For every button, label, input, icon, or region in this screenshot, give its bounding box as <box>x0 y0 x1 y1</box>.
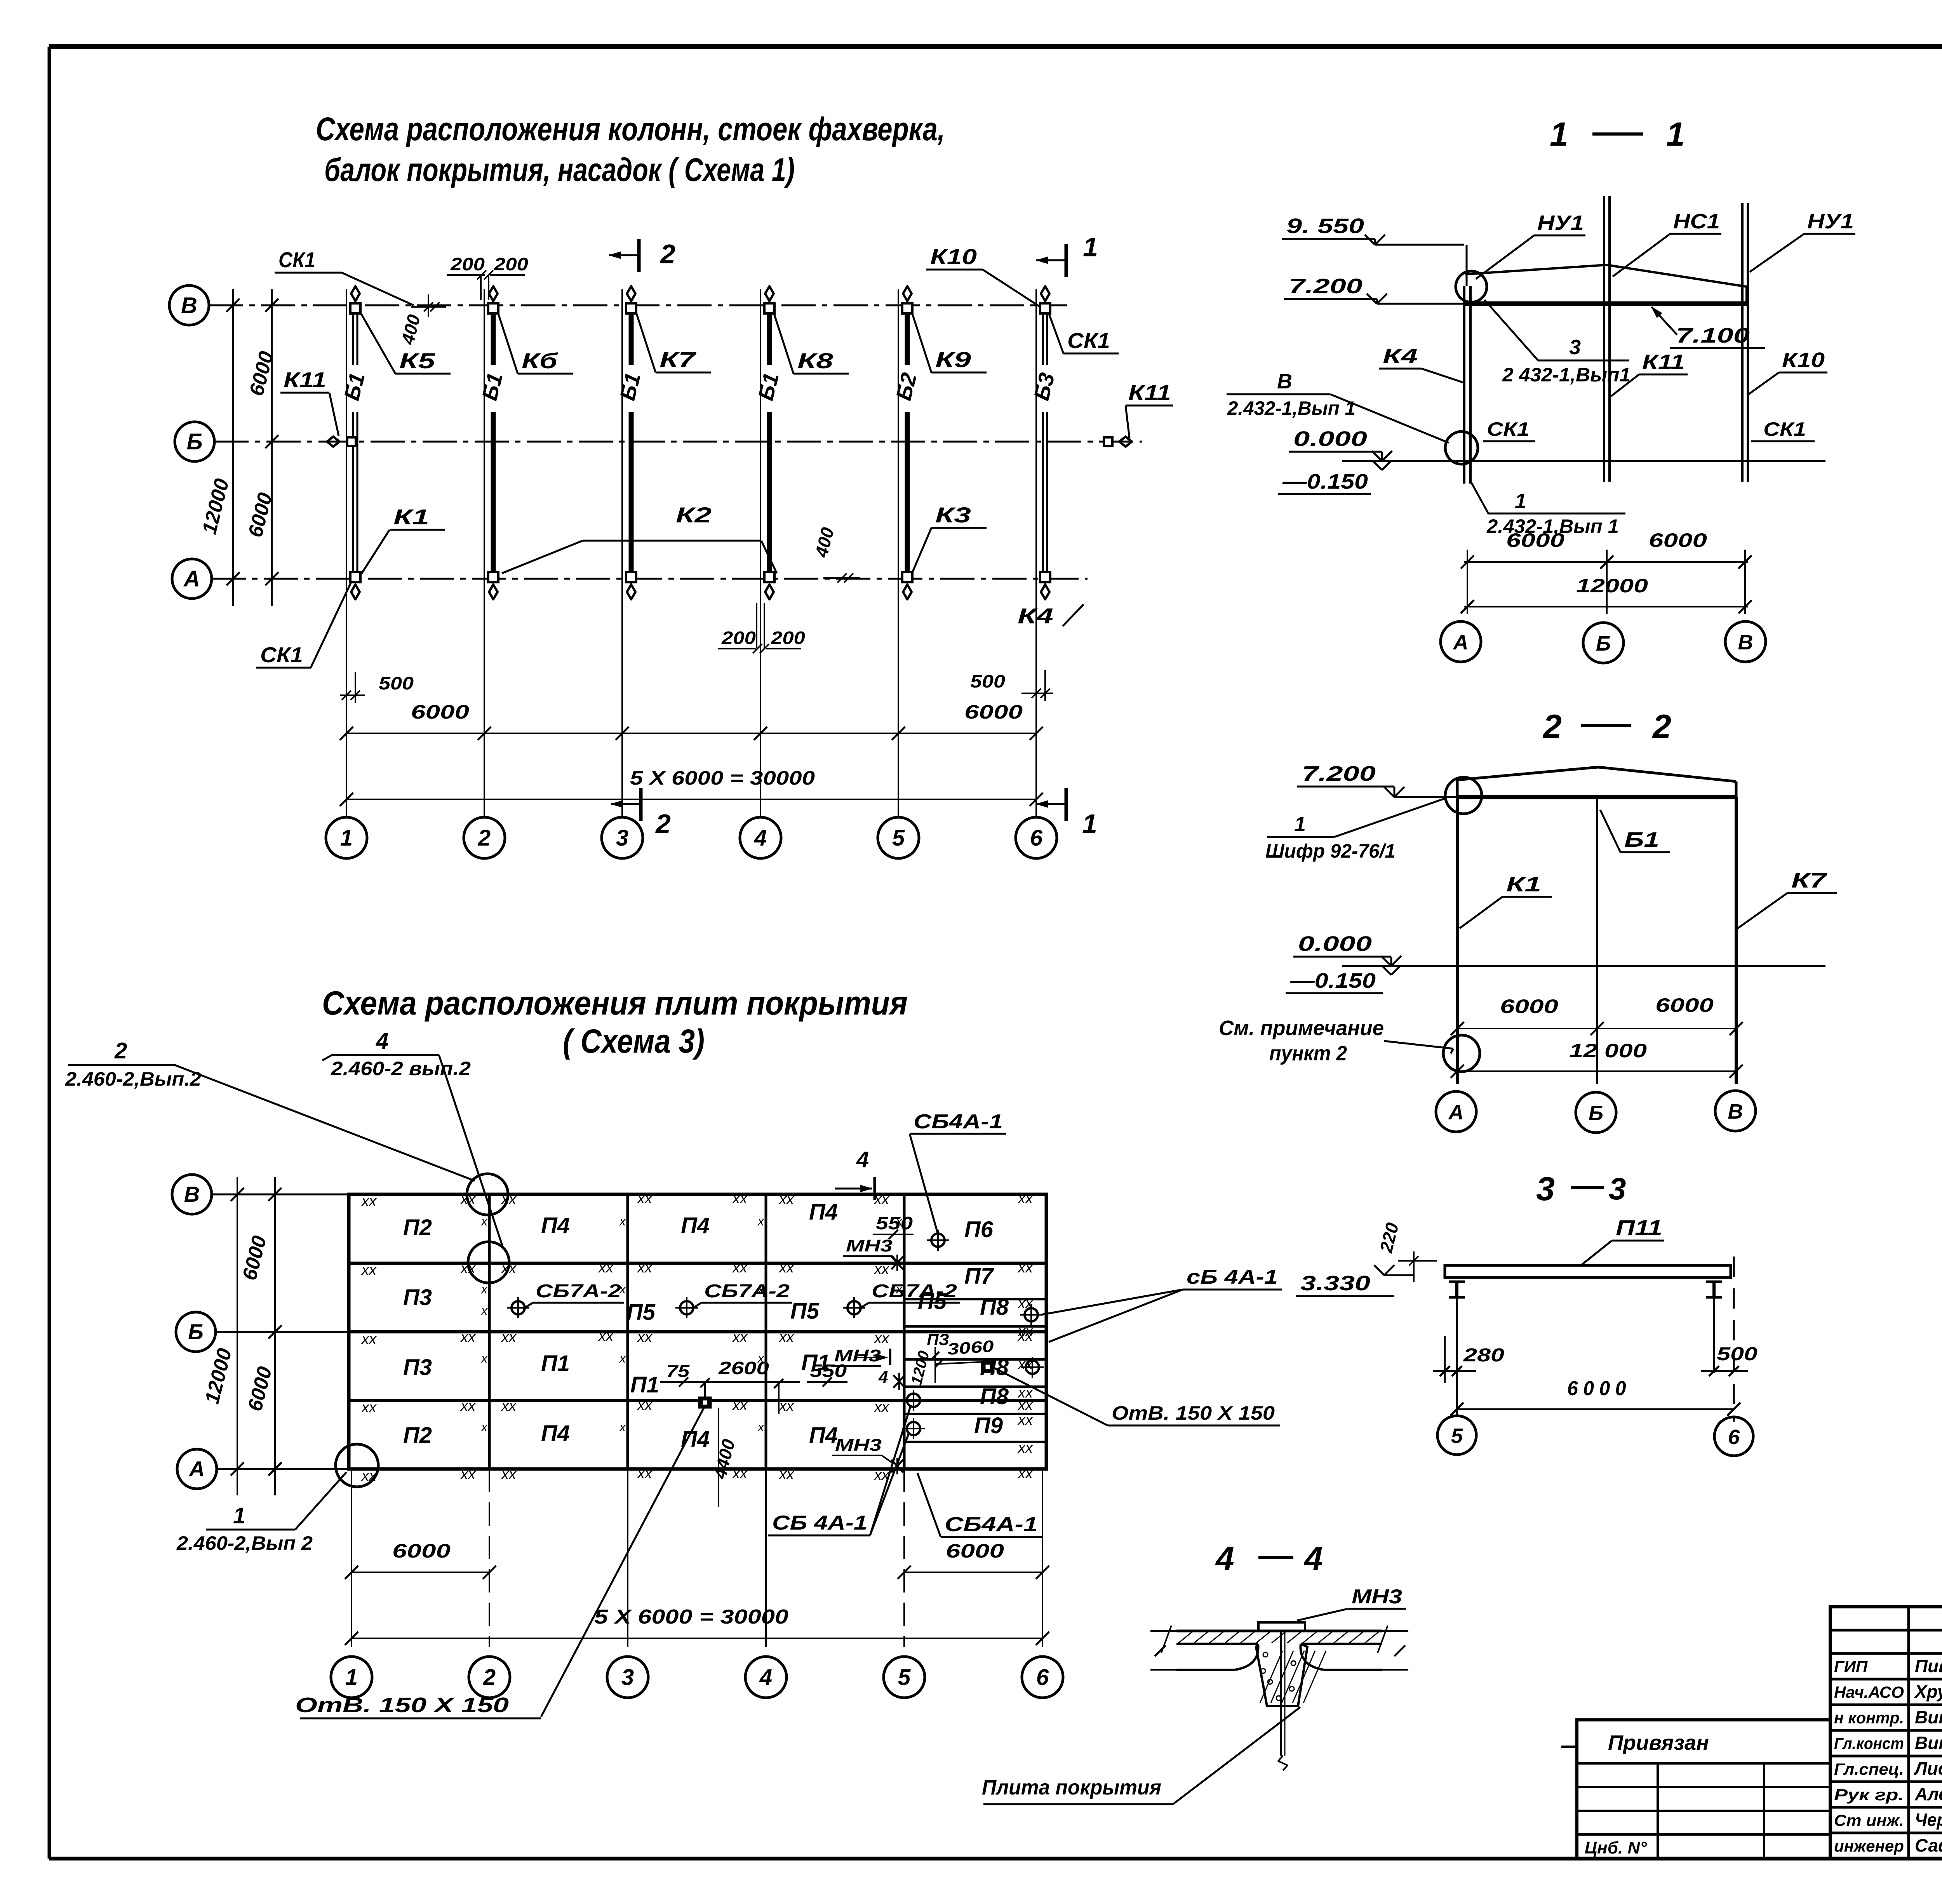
beam Б1 on axis 4 <box>753 307 783 578</box>
svg-text:xx: xx <box>732 1190 748 1207</box>
svg-text:К1: К1 <box>1506 873 1541 896</box>
section 2-2 column К7 <box>1735 797 1738 1084</box>
label МН3 top <box>843 1236 898 1263</box>
svg-text:x: x <box>757 1214 764 1228</box>
section 1-1 column НУ1 at axis А <box>1464 245 1470 484</box>
svg-text:Сафонова: Сафонова <box>1915 1835 1942 1855</box>
svg-text:1: 1 <box>345 1665 358 1690</box>
slab label П5 <box>918 1289 947 1314</box>
label СК1 section right <box>1751 418 1815 441</box>
К11 column left on axis Б <box>327 437 356 447</box>
svg-text:—0.150: —0.150 <box>1290 969 1376 992</box>
axis 6 dash line section 3-3 <box>1733 1257 1735 1422</box>
svg-text:3.330: 3.330 <box>1300 1272 1370 1295</box>
scheme3 axis Б <box>176 1312 349 1352</box>
svg-text:4: 4 <box>878 1368 888 1387</box>
opening Отв 150x150 in П1 <box>699 1398 711 1408</box>
svg-text:П9: П9 <box>974 1413 1003 1438</box>
level 0.000 <box>1289 427 1392 461</box>
svg-text:Привязан: Привязан <box>1608 1731 1709 1754</box>
anchors in right bay lower <box>902 1390 925 1411</box>
label СК1 top right <box>1049 313 1119 353</box>
label Отв 150х150 right <box>994 1368 1280 1425</box>
svg-text:Винклер: Винклер <box>1915 1733 1942 1753</box>
svg-text:П4: П4 <box>809 1199 838 1225</box>
svg-text:К9: К9 <box>935 347 971 372</box>
label К5 <box>361 314 451 374</box>
slab label П8 <box>980 1384 1009 1409</box>
svg-text:xx: xx <box>501 1260 517 1277</box>
svg-text:3: 3 <box>1569 336 1581 359</box>
svg-text:6: 6 <box>1036 1665 1049 1690</box>
slab label П1 <box>630 1372 659 1398</box>
svg-text:xx: xx <box>361 1468 377 1484</box>
svg-text:xx: xx <box>460 1329 476 1345</box>
svg-text:7.100: 7.100 <box>1676 324 1750 347</box>
svg-text:xx: xx <box>637 1465 653 1482</box>
svg-text:П7: П7 <box>964 1264 994 1289</box>
svg-text:xx: xx <box>1017 1295 1034 1312</box>
label К2 with bracket <box>502 503 777 573</box>
slab label П7 <box>964 1264 994 1289</box>
svg-text:x: x <box>757 1351 764 1365</box>
svg-text:x: x <box>480 1304 488 1317</box>
svg-text:СБ4А-1: СБ4А-1 <box>914 1110 1003 1133</box>
dim row 6000 <box>340 701 1043 740</box>
axis circle 1 <box>326 817 367 858</box>
svg-text:xx: xx <box>637 1329 653 1345</box>
svg-text:МН3: МН3 <box>835 1436 882 1455</box>
label сБ 4А-1 right <box>1041 1266 1282 1342</box>
svg-text:К11: К11 <box>284 367 326 392</box>
svg-text:СБ7А-2: СБ7А-2 <box>536 1281 621 1302</box>
svg-text:Б: Б <box>1589 1102 1603 1125</box>
label НС1 <box>1613 210 1721 277</box>
scheme3 bottom dim 6000 left <box>345 1540 496 1579</box>
opening in П8 band <box>982 1362 994 1372</box>
axis circle 6 <box>1016 817 1057 858</box>
svg-text:1: 1 <box>1083 232 1098 262</box>
label К10 <box>926 244 1040 307</box>
К11 column right on axis Б <box>1104 437 1132 447</box>
beam Б2 on axis 5 <box>891 307 921 578</box>
svg-text:x: x <box>619 1282 626 1296</box>
svg-text:x: x <box>480 1351 488 1365</box>
label 4 / 2.460-2 вып.2 <box>322 1029 503 1248</box>
slab label П5 <box>626 1300 656 1325</box>
svg-text:В: В <box>1738 631 1753 654</box>
ground line -0.150 <box>1278 461 1825 494</box>
svg-text:В: В <box>1277 370 1292 393</box>
dim 550 middle <box>807 1361 847 1387</box>
axis 1 grid line <box>346 289 347 816</box>
svg-text:Хрупало: Хрупало <box>1914 1681 1942 1702</box>
svg-text:xx: xx <box>501 1191 517 1208</box>
section mark 1 bottom <box>1036 788 1097 839</box>
svg-text:xx: xx <box>501 1329 517 1345</box>
dim 550 top <box>873 1213 914 1239</box>
column square axis 6 / А <box>1040 572 1050 582</box>
svg-text:ОтВ. 150 X 150: ОтВ. 150 X 150 <box>1112 1402 1275 1424</box>
slab label П5 <box>790 1298 820 1324</box>
label 3 / 2 432-1,Вып1 <box>1484 300 1631 386</box>
slab label П8 <box>980 1295 1009 1320</box>
fachwerk diamond bottom axis 2 <box>489 579 498 599</box>
svg-text:xx: xx <box>778 1260 795 1276</box>
svg-text:К7: К7 <box>1791 869 1828 892</box>
svg-text:3060: 3060 <box>947 1337 994 1358</box>
label НУ1 right <box>1750 210 1855 272</box>
scheme3 axis circle 4 <box>745 1657 787 1698</box>
node circle callout 2 <box>467 1174 508 1215</box>
scheme3 axis circle 6 <box>1022 1657 1063 1698</box>
dim 75 / 2600 <box>660 1358 800 1414</box>
section 3-3 circle 5 <box>1437 1409 1476 1455</box>
svg-text:П1: П1 <box>630 1372 659 1398</box>
svg-text:—0.150: —0.150 <box>1282 470 1368 493</box>
svg-text:П4: П4 <box>681 1213 710 1238</box>
level 7.100 with arrow <box>1651 307 1765 348</box>
svg-text:xx: xx <box>1017 1190 1034 1207</box>
svg-text:Цнб. N°: Цнб. N° <box>1585 1838 1647 1857</box>
column square axis 4 / А <box>764 572 774 582</box>
svg-text:Алехова: Алехова <box>1914 1784 1942 1804</box>
section 1-1 column НС1 at axis Б <box>1604 196 1610 482</box>
svg-text:x: x <box>757 1420 764 1434</box>
slab П11 <box>1445 1265 1731 1277</box>
column square axis 1 / В <box>350 303 360 313</box>
fachwerk diamond bottom axis 5 <box>903 579 912 599</box>
label К4 <box>1018 604 1084 628</box>
svg-text:СК1: СК1 <box>1487 418 1530 440</box>
column square axis 4 / В <box>764 303 774 313</box>
svg-text:xx: xx <box>874 1191 890 1208</box>
svg-text:xx: xx <box>460 1466 476 1483</box>
anchor bolt МН3 <box>1278 1631 1288 1770</box>
rib of slab <box>1256 1644 1326 1706</box>
svg-text:x: x <box>895 1282 903 1296</box>
slab label П4 <box>809 1199 838 1225</box>
svg-text:К1: К1 <box>393 505 429 529</box>
label СБ7А-2 #3 <box>859 1281 960 1309</box>
node circle callout 4 <box>468 1242 509 1283</box>
node circle callout 1 <box>336 1444 378 1487</box>
svg-text:xx: xx <box>874 1330 890 1347</box>
svg-text:xx: xx <box>1017 1385 1034 1401</box>
title block: signature table <box>1830 1607 1942 1859</box>
svg-text:СБ 4А-1: СБ 4А-1 <box>772 1512 867 1534</box>
svg-text:xx: xx <box>361 1331 377 1347</box>
scheme3 axis extensions below <box>352 1469 1042 1647</box>
svg-text:xx: xx <box>598 1328 614 1344</box>
svg-text:xx: xx <box>1017 1260 1034 1276</box>
svg-text:500: 500 <box>1717 1344 1758 1364</box>
svg-text:xx: xx <box>501 1466 517 1483</box>
dim 400 bottom (axis 4) <box>811 525 860 583</box>
fachwerk diamond top axis 2 <box>489 286 498 307</box>
МН3 washer plate <box>1258 1622 1305 1631</box>
node circle bottom (В/1) <box>1445 432 1478 464</box>
svg-text:СК1: СК1 <box>1763 418 1806 440</box>
svg-text:См. примечание: См. примечание <box>1219 1016 1384 1040</box>
svg-text:500: 500 <box>379 673 414 693</box>
svg-text:6000: 6000 <box>1649 529 1707 551</box>
svg-text:4: 4 <box>759 1665 772 1690</box>
svg-text:Шифр 92-76/1: Шифр 92-76/1 <box>1265 840 1396 862</box>
fachwerk diamond top axis 3 <box>627 286 635 307</box>
svg-text:Черкасова: Черкасова <box>1915 1810 1942 1830</box>
slab break lines and arrows <box>1150 1626 1408 1670</box>
svg-text:2: 2 <box>114 1038 127 1063</box>
slab label П4 <box>681 1427 710 1452</box>
svg-text:1: 1 <box>340 825 353 851</box>
section 1-1 dims 6000+6000 <box>1461 529 1752 614</box>
svg-text:2.460-2,Вып 2: 2.460-2,Вып 2 <box>176 1532 313 1554</box>
svg-text:x: x <box>757 1282 764 1296</box>
svg-text:2: 2 <box>483 1665 496 1690</box>
svg-text:МН3: МН3 <box>1352 1586 1402 1608</box>
left frame stubs <box>1561 1746 1577 1748</box>
svg-text:К8: К8 <box>797 348 834 373</box>
label 1 / Шифр 92-76/1 <box>1265 798 1446 862</box>
svg-text:xx: xx <box>1017 1356 1034 1373</box>
dim 220 rotated <box>1376 1220 1437 1282</box>
section 2-2 beam Б1 edge <box>1596 797 1598 1084</box>
anchor СБ4А-1 П8 right mid <box>1021 1357 1044 1378</box>
svg-text:xx: xx <box>460 1191 476 1208</box>
svg-text:К5: К5 <box>399 348 435 373</box>
label СБ 4А-1 bottom #1 <box>768 1405 911 1535</box>
scheme3 axis circle 2 <box>469 1657 510 1698</box>
svg-text:6000: 6000 <box>392 1540 451 1562</box>
svg-text:500: 500 <box>970 671 1005 691</box>
slab label П4 <box>681 1213 710 1238</box>
label К7 section 2-2 <box>1738 869 1837 928</box>
slab underside <box>1176 1644 1382 1670</box>
svg-text:3: 3 <box>616 825 628 851</box>
axis А <box>172 559 1088 599</box>
svg-text:0.000: 0.000 <box>1293 427 1367 451</box>
slab cross-section with hatching <box>1176 1631 1382 1644</box>
section 1-1 title <box>1550 116 1685 153</box>
svg-text:Нач.АСО: Нач.АСО <box>1834 1683 1904 1701</box>
svg-text:xx: xx <box>637 1190 653 1207</box>
section 2-2 axis circles А Б В <box>1436 1091 1476 1132</box>
svg-text:СБ7А-2: СБ7А-2 <box>704 1281 790 1302</box>
dim 200/200 top (axis 2) <box>447 254 528 300</box>
title Схема 3 <box>322 985 908 1060</box>
svg-text:Пивторак: Пивторак <box>1915 1656 1942 1676</box>
svg-text:xx: xx <box>778 1191 795 1208</box>
column square axis 3 / В <box>626 303 636 313</box>
axis Б <box>175 422 1142 461</box>
svg-text:xx: xx <box>778 1329 795 1345</box>
section mark 4 top <box>835 1147 875 1200</box>
slab label П2 <box>403 1215 432 1240</box>
asterisk МН3 top <box>891 1255 903 1271</box>
svg-text:2 432-1,Вып1: 2 432-1,Вып1 <box>1502 364 1631 386</box>
node circle top (1) <box>1445 777 1482 814</box>
slab label П4 <box>541 1421 570 1446</box>
svg-text:xx: xx <box>732 1260 748 1276</box>
label 1 / 2.432-1,Вып 1 <box>1471 482 1625 537</box>
svg-text:сБ 4А-1: сБ 4А-1 <box>1187 1266 1278 1288</box>
label СБ7А-2 #1 <box>523 1281 624 1309</box>
beam Б1 on axis 1 <box>339 307 369 578</box>
svg-text:xx: xx <box>874 1399 890 1415</box>
svg-text:К11: К11 <box>1642 350 1685 374</box>
level 7.200 <box>1284 275 1463 304</box>
svg-text:П6: П6 <box>964 1217 994 1242</box>
section mark 2 bottom <box>611 788 671 839</box>
section 1-1 roof beam <box>1464 265 1748 304</box>
svg-text:5 X 6000 = 30000: 5 X 6000 = 30000 <box>594 1606 788 1628</box>
svg-text:Схема расположения плит пок: Схема расположения плит покрытия <box>322 985 908 1022</box>
svg-text:3: 3 <box>621 1665 634 1690</box>
label СБ4А-1 top <box>910 1110 1006 1234</box>
svg-text:П4: П4 <box>541 1213 570 1238</box>
svg-text:Гл.конст: Гл.конст <box>1834 1734 1904 1753</box>
svg-text:А: А <box>188 1457 205 1481</box>
label СК1 bottom left <box>256 581 352 668</box>
dim row 5x6000=30000 <box>340 767 1043 806</box>
svg-text:550: 550 <box>810 1361 847 1381</box>
slab label П1 <box>541 1351 570 1376</box>
column square axis 5 / В <box>902 303 912 313</box>
svg-text:К3: К3 <box>935 503 971 527</box>
slab label П6 <box>964 1217 994 1242</box>
slab label П3 <box>403 1285 432 1310</box>
label К1 <box>361 505 445 574</box>
dim 500 section 3-3 <box>1701 1344 1758 1376</box>
axis 5 grid line <box>898 289 899 816</box>
svg-text:1: 1 <box>1082 809 1097 839</box>
svg-text:3: 3 <box>1609 1171 1626 1206</box>
column square axis 2 / В <box>488 303 498 313</box>
asterisk МН3 middle <box>893 1373 905 1390</box>
section mark 1 top <box>1036 232 1098 277</box>
level 7.200 section 2-2 <box>1297 762 1457 797</box>
svg-text:x: x <box>619 1420 626 1434</box>
svg-text:2: 2 <box>478 825 491 851</box>
section 2-2 column К1 <box>1456 797 1459 1084</box>
svg-text:7.200: 7.200 <box>1289 275 1363 298</box>
fachwerk diamond top axis 6 <box>1041 286 1049 307</box>
svg-text:xx: xx <box>637 1260 653 1276</box>
fachwerk diamond bottom axis 6 <box>1041 579 1049 599</box>
I-beam support right <box>1706 1282 1722 1373</box>
signature table rows <box>1834 1656 1942 1855</box>
slab label П1 <box>801 1350 830 1375</box>
svg-text:200: 200 <box>494 254 529 274</box>
svg-text:СБ7А-2: СБ7А-2 <box>872 1281 957 1302</box>
svg-text:Ст инж.: Ст инж. <box>1834 1811 1904 1829</box>
label К4 section <box>1379 345 1463 383</box>
slab label П2 <box>403 1423 432 1448</box>
svg-text:xx: xx <box>361 1262 377 1278</box>
dim 6000 section 3-3 <box>1450 1377 1740 1416</box>
svg-text:4: 4 <box>1215 1540 1234 1577</box>
svg-text:В: В <box>184 1182 200 1206</box>
svg-text:xx: xx <box>732 1329 748 1345</box>
svg-text:Кб: Кб <box>522 348 558 373</box>
svg-text:Плита покрытия: Плита покрытия <box>982 1776 1161 1799</box>
svg-text:x: x <box>480 1282 488 1296</box>
axis circle 4 <box>740 817 781 858</box>
svg-text:7.200: 7.200 <box>1302 762 1376 785</box>
label СБ4А-1 bottom #2 <box>917 1473 1043 1537</box>
label К10 section <box>1749 348 1827 394</box>
svg-text:5: 5 <box>892 825 905 851</box>
svg-text:xx: xx <box>361 1193 377 1210</box>
scheme3 slab field outline <box>349 1194 1046 1469</box>
svg-text:В: В <box>181 293 197 318</box>
fachwerk diamond top axis 5 <box>903 286 912 307</box>
axis 3 grid line <box>621 289 623 816</box>
section 1-1 axis circles А Б В <box>1441 621 1481 662</box>
section 3-3 title <box>1536 1170 1626 1208</box>
label К6 <box>498 314 573 374</box>
svg-text:xx: xx <box>460 1260 476 1277</box>
scheme3 axis А <box>177 1449 349 1489</box>
axis В <box>169 285 1067 325</box>
anchor СБ7А-2 #1 <box>507 1297 529 1318</box>
svg-text:x: x <box>480 1420 488 1434</box>
label См. примечание пункт 2 <box>1219 1016 1453 1065</box>
label К11 section <box>1611 350 1688 396</box>
label МН3 bottom <box>832 1436 893 1464</box>
dim 400 top <box>397 294 446 347</box>
svg-text:xx: xx <box>778 1466 795 1483</box>
column square axis 5 / А <box>902 572 912 582</box>
svg-text:К4: К4 <box>1018 604 1053 628</box>
svg-text:К4: К4 <box>1383 345 1418 368</box>
label 1 / 2.460-2,Вып 2 <box>176 1472 346 1554</box>
svg-text:2: 2 <box>655 809 671 839</box>
xx joint marks <box>361 1190 1034 1484</box>
svg-text:СК1: СК1 <box>1067 328 1110 353</box>
beam Б1 on axis 2 <box>477 307 507 578</box>
svg-text:К11: К11 <box>1128 380 1171 405</box>
svg-text:6000: 6000 <box>946 1540 1004 1562</box>
svg-text:П2: П2 <box>403 1215 432 1240</box>
svg-text:2.460-2,Вып.2: 2.460-2,Вып.2 <box>65 1068 201 1090</box>
svg-text:x: x <box>895 1214 903 1228</box>
anchor СБ7А-2 #2 <box>675 1297 698 1318</box>
svg-text:П4: П4 <box>809 1423 838 1448</box>
svg-text:6000: 6000 <box>964 701 1023 723</box>
right bay subdivision П6-П9 <box>904 1299 1046 1442</box>
dim 500 left bottom <box>340 672 414 703</box>
svg-text:К10: К10 <box>1782 348 1825 372</box>
svg-text:550: 550 <box>876 1213 913 1233</box>
dim 1200 rotated <box>908 1347 939 1387</box>
svg-text:xx: xx <box>1017 1440 1034 1456</box>
slab label П3 <box>403 1355 432 1380</box>
section 4-4 title <box>1215 1540 1323 1577</box>
svg-text:Винклер: Винклер <box>1915 1707 1942 1727</box>
section 2-2 roof beam <box>1457 767 1736 797</box>
svg-text:xx: xx <box>361 1399 377 1416</box>
svg-text:балок покрытия, насадок (: балок покрытия, насадок ( Схема 1) <box>324 151 795 188</box>
scheme3 axis В <box>172 1175 349 1214</box>
label Плита покрытия <box>982 1707 1300 1804</box>
svg-text:xx: xx <box>1017 1412 1034 1428</box>
label В / 2.432-1,Вып 1 <box>1227 370 1449 443</box>
svg-text:xx: xx <box>1017 1323 1034 1340</box>
svg-text:2: 2 <box>1542 708 1562 745</box>
svg-text:3: 3 <box>1536 1170 1555 1208</box>
